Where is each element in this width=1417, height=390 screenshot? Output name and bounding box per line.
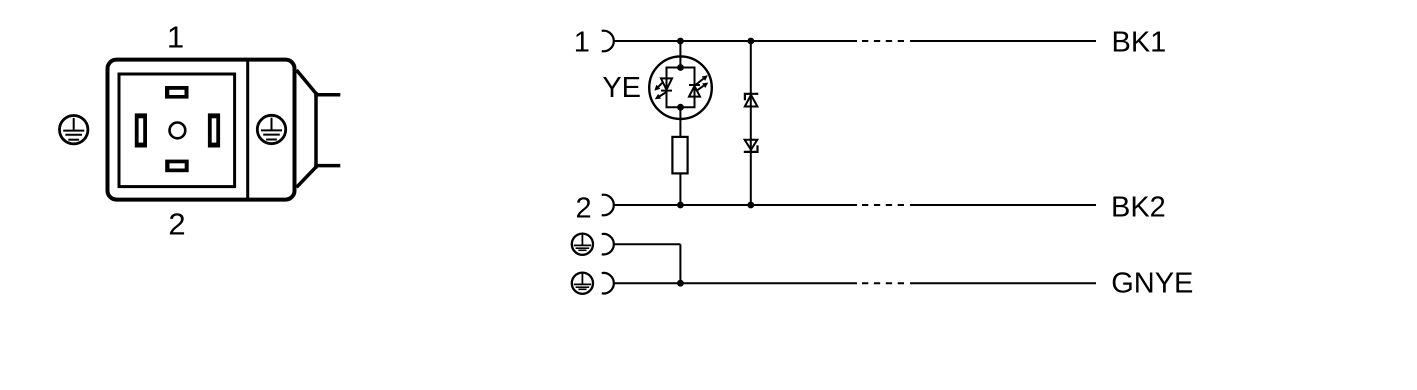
junction dot pin2/LED branch xyxy=(677,202,684,209)
junction dot pin2/suppressor branch xyxy=(747,202,754,209)
LED left (cathode down) xyxy=(661,78,672,90)
svg-text:2: 2 xyxy=(576,192,592,224)
wire resistor to pin2 xyxy=(679,173,681,205)
suppressor branch wire xyxy=(750,41,752,205)
wire to BK2 label xyxy=(910,204,1096,206)
svg-text:1: 1 xyxy=(167,20,184,55)
svg-text:1: 1 xyxy=(574,27,590,59)
left contact (vertical slot) xyxy=(135,113,147,147)
wire to GNYE label xyxy=(910,282,1096,284)
wire ground1 horizontal xyxy=(614,243,681,245)
wire to BK1 label xyxy=(910,40,1096,42)
right contact (vertical slot) xyxy=(208,113,220,147)
wire LED to resistor xyxy=(679,107,681,137)
wire pin2 to cable break xyxy=(614,204,857,206)
ground socket 1 contact xyxy=(602,234,614,255)
cable prong top xyxy=(314,93,340,97)
suppressor zener diode top (cathode up) xyxy=(745,94,759,107)
wire ground1 down to ground2 xyxy=(679,244,681,283)
left protective-earth symbol xyxy=(59,116,87,144)
junction dot ground xyxy=(677,280,684,287)
LED left emission arrows xyxy=(654,83,667,100)
LED frame bottom node dot xyxy=(677,104,684,111)
pin 1 socket contact xyxy=(602,31,614,52)
junction dot pin1/LED branch xyxy=(677,38,684,45)
wire pin1 to cable break xyxy=(614,40,857,42)
wire pin1 down into LED xyxy=(679,41,681,68)
LED internal frame xyxy=(667,68,695,108)
LED frame top node dot xyxy=(677,64,684,71)
ground socket 2 earth symbol xyxy=(572,273,593,294)
pin 1 contact (top slot) xyxy=(165,86,189,99)
junction dot pin1/suppressor branch xyxy=(747,38,754,45)
right protective-earth symbol xyxy=(257,115,285,143)
svg-text:2: 2 xyxy=(168,207,185,242)
connector divider line xyxy=(246,60,249,200)
wire GNYE dashed break xyxy=(862,282,904,284)
wire BK1 dashed break xyxy=(862,40,904,42)
wire BK2 dashed break xyxy=(862,204,904,206)
svg-text:YE: YE xyxy=(602,72,641,104)
resistor xyxy=(672,137,687,174)
ground socket 2 contact xyxy=(602,273,614,294)
LED indicator circle xyxy=(649,56,712,119)
svg-text:BK1: BK1 xyxy=(1112,26,1167,58)
pin 2 contact (bottom slot) xyxy=(165,160,189,173)
wire ground to cable break xyxy=(614,282,857,284)
cable prong bottom xyxy=(314,164,340,168)
cable entry housing (trapezoid) xyxy=(297,70,317,187)
pin 2 socket contact xyxy=(602,195,614,216)
suppressor zener diode bottom (cathode down) xyxy=(744,140,758,152)
connector inner face xyxy=(119,74,235,187)
LED right (cathode up) xyxy=(689,85,700,97)
center hole xyxy=(170,122,186,138)
connector body outline xyxy=(108,60,295,200)
ground socket 1 earth symbol xyxy=(572,234,593,255)
LED right emission arrows xyxy=(696,75,708,91)
svg-text:BK2: BK2 xyxy=(1111,192,1166,224)
svg-text:GNYE: GNYE xyxy=(1111,267,1193,299)
